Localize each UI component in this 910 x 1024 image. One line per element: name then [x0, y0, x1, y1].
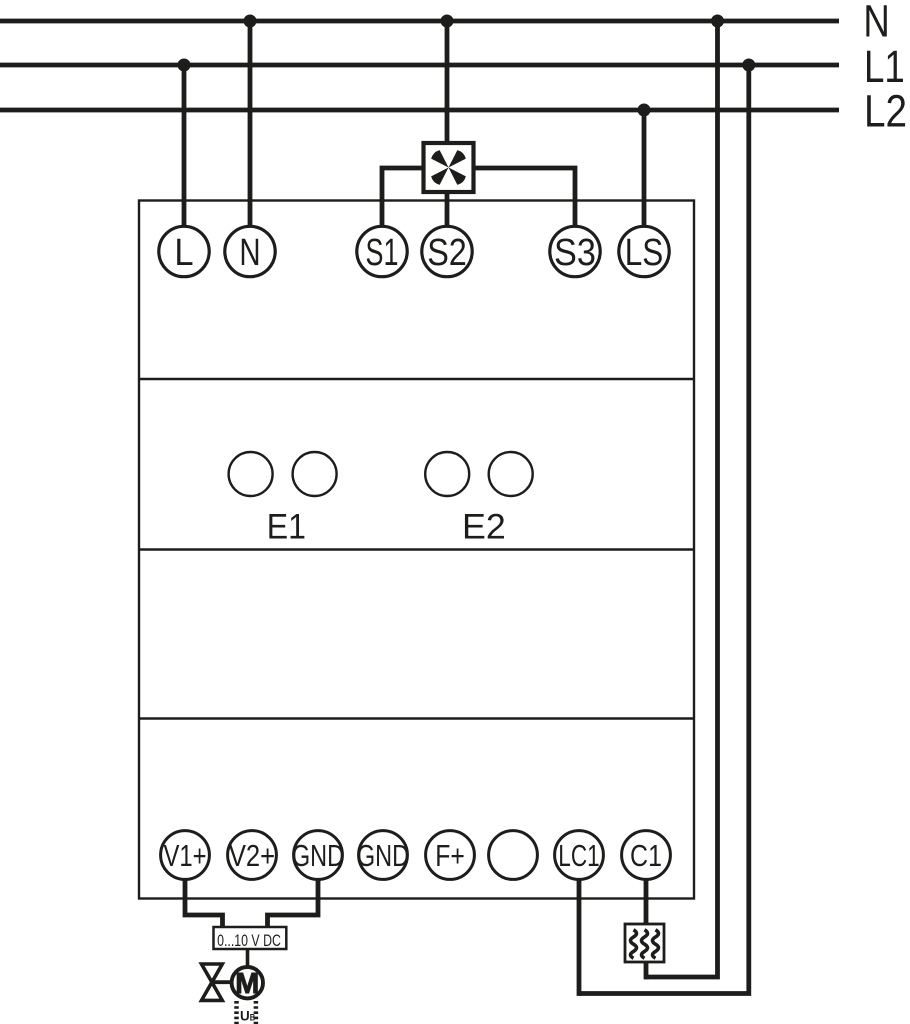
terminal S2: [422, 226, 472, 276]
junction N / fan drop: [441, 15, 454, 28]
junction N / heater return: [711, 15, 724, 28]
motor M valve actuator: [232, 967, 263, 1000]
label E1: [267, 508, 306, 547]
wire L2 to terminal LS: [642, 110, 647, 226]
terminal LS: [619, 226, 669, 276]
terminal GND 2: [357, 831, 409, 880]
terminal GND 1: [292, 831, 344, 880]
input E2 contact a: [425, 452, 469, 496]
svg-text:E1: E1: [267, 508, 306, 547]
svg-text:GND: GND: [292, 838, 344, 873]
terminal L: [159, 226, 209, 276]
wire C1 down to heater E: [644, 879, 649, 925]
junction N / N-terminal drop: [244, 15, 257, 28]
wire L1 down right side to LC1 return: [579, 65, 749, 994]
terminal S1: [357, 226, 407, 276]
terminal V1+: [161, 831, 210, 880]
svg-text:L1: L1: [864, 41, 905, 92]
label net N: [863, 0, 889, 47]
svg-text:S2: S2: [427, 232, 467, 274]
svg-text:LC1: LC1: [558, 838, 599, 873]
wire N down right side to heater return: [646, 21, 718, 977]
label net L2: [864, 86, 907, 137]
input E1 contact a: [229, 452, 273, 496]
net L2 bus line: [0, 108, 839, 113]
label E2: [462, 508, 506, 547]
net N bus line: [0, 19, 839, 24]
svg-text:F+: F+: [435, 838, 465, 873]
svg-text:GND: GND: [357, 838, 409, 873]
heater E symbol box: [625, 924, 664, 962]
input E1 contact b: [293, 452, 337, 496]
svg-text:S3: S3: [554, 232, 596, 274]
wire LC1 down to L1 return: [577, 879, 582, 996]
svg-text:V1+: V1+: [163, 838, 206, 873]
actuator interface box 0...10 V DC: [214, 927, 287, 950]
junction L1 / LC1 return: [742, 59, 755, 72]
wire V1+ to actuator box: [185, 879, 223, 927]
terminal F+: [426, 831, 475, 880]
fan M1 symbol box: [424, 143, 474, 192]
wire L1 to terminal L: [182, 65, 187, 226]
wire terminal S1 to fan M1 left: [382, 168, 424, 226]
svg-text:E2: E2: [462, 508, 506, 547]
supply lead UB dashed left: [234, 1001, 239, 1024]
wire actuator box to motor M: [246, 950, 250, 968]
wire valve to motor M: [212, 980, 233, 984]
svg-text:U: U: [240, 1009, 250, 1024]
device section divider 3: [139, 717, 694, 719]
wire fan M1 right to terminal S3: [473, 168, 575, 226]
input E2 contact b: [489, 452, 533, 496]
terminal unlabeled: [489, 831, 538, 880]
svg-text:V2+: V2+: [229, 838, 275, 873]
svg-text:L2: L2: [864, 86, 907, 137]
svg-text:0...10 V DC: 0...10 V DC: [217, 931, 281, 950]
wire fan M1 bottom to terminal S2: [445, 190, 450, 226]
wire GND to actuator box: [268, 879, 319, 927]
svg-text:N: N: [863, 0, 889, 47]
junction L2 / LS drop: [638, 104, 651, 117]
svg-text:N: N: [239, 232, 260, 274]
svg-text:L: L: [174, 232, 193, 274]
wire N to fan M1 top: [445, 21, 450, 145]
wire N to terminal N: [248, 21, 253, 226]
controller device outline box: [139, 201, 694, 899]
device section divider 2: [139, 548, 694, 550]
svg-text:C1: C1: [630, 838, 662, 873]
wire heater E bottom to N return: [644, 961, 649, 979]
terminal S3: [550, 226, 600, 276]
svg-text:M: M: [235, 968, 259, 1000]
svg-text:LS: LS: [625, 232, 664, 274]
valve symbol: [202, 964, 223, 1000]
svg-text:B: B: [250, 1013, 255, 1024]
svg-text:S1: S1: [366, 232, 399, 274]
terminal LC1: [555, 831, 604, 880]
device section divider 1: [139, 378, 694, 380]
label net L1: [864, 41, 905, 92]
terminal N: [225, 226, 275, 276]
supply lead UB dashed right: [254, 1001, 259, 1024]
label UB: [240, 1009, 255, 1024]
net L1 bus line: [0, 63, 839, 68]
junction L1 / L-terminal drop: [178, 59, 191, 72]
terminal C1: [622, 831, 671, 880]
terminal V2+: [228, 831, 277, 880]
